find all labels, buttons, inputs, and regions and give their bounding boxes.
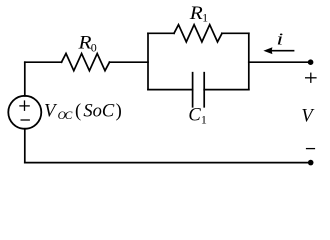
label terminal plus: [305, 73, 317, 83]
wire R0 to RC box: [110, 61, 149, 63]
svg-text:1: 1: [202, 11, 208, 25]
svg-text:1: 1: [201, 113, 207, 127]
svg-text:C: C: [188, 106, 201, 126]
svg-text:0: 0: [91, 40, 97, 54]
capacitor C1 plate left: [192, 73, 194, 107]
current arrowhead: [263, 47, 272, 54]
wire RC box left edge: [147, 33, 149, 89]
wire top-left horizontal: [25, 61, 62, 63]
svg-text:SoC: SoC: [83, 101, 115, 121]
voltage source minus mark: [21, 119, 30, 121]
resistor R1: [174, 25, 222, 42]
wire box bottom-right segment: [204, 89, 249, 91]
resistor R0: [62, 54, 110, 71]
node dot top terminal: [308, 59, 314, 65]
voltage source plus mark: [19, 100, 30, 111]
wire box bottom-left segment: [148, 89, 193, 91]
wire box to top terminal: [249, 61, 311, 63]
svg-text:i: i: [276, 30, 283, 49]
svg-text:R: R: [189, 3, 203, 23]
wire box top-left segment: [148, 32, 174, 34]
wire box top-right segment: [222, 32, 249, 34]
svg-text:R: R: [77, 33, 91, 53]
label terminal minus: [306, 148, 315, 150]
svg-text:(: (: [75, 101, 81, 121]
svg-text:): ): [116, 101, 122, 121]
svg-text:C: C: [65, 110, 73, 122]
svg-text:V: V: [301, 107, 315, 127]
voltage source U1 circle: [8, 96, 41, 129]
wire left vertical upper: [24, 62, 26, 96]
node dot bottom terminal: [308, 160, 314, 166]
wire RC box right edge: [248, 33, 250, 89]
svg-text:V: V: [44, 101, 58, 121]
wire bottom horizontal: [25, 162, 311, 164]
capacitor C1 plate right: [203, 73, 205, 107]
current arrow shaft: [271, 50, 294, 52]
wire left vertical lower: [24, 129, 26, 163]
